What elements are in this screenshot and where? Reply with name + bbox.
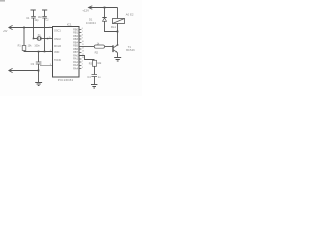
diode D1 cathode bar (102, 17, 106, 19)
wire junction down to R1 (23, 28, 25, 45)
capacitor C3 plates (36, 62, 42, 64)
svg-text:OSC2: OSC2 (54, 38, 61, 41)
wire diode to collector node (105, 21, 118, 31)
node C2 MCLR junction (44, 51, 46, 53)
scan smudge top-left corner (0, 0, 5, 2)
wire C1 vertical upper (33, 10, 35, 17)
svg-text:13: 13 (82, 51, 84, 53)
wire C4 to ground (94, 77, 96, 85)
svg-text:OSC1: OSC1 (54, 30, 61, 33)
right pin stubs (79, 30, 81, 69)
svg-text:RA4: RA4 (73, 67, 78, 70)
wire RB5 to base resistor (79, 46, 94, 48)
wire diode anode (104, 8, 106, 17)
svg-text:R3: R3 (89, 62, 93, 65)
capacitor C1 plates (31, 17, 36, 19)
node collector corner (117, 44, 119, 46)
crystal X1 body (38, 37, 40, 41)
wire C2 vertical upper (44, 10, 46, 17)
relay coil diagonal (113, 19, 125, 24)
wire RA0 branch down (79, 56, 95, 60)
resistor R1 body (22, 46, 26, 51)
transistor T1 collector (114, 45, 118, 48)
wire R2 to base (105, 46, 113, 48)
svg-text:X1: X1 (38, 34, 42, 37)
svg-text:2: 2 (82, 64, 83, 66)
node arrow junction (38, 70, 40, 72)
svg-text:12: 12 (82, 48, 84, 50)
svg-text:3: 3 (82, 67, 83, 69)
IC1 box PIC16F84 (53, 27, 80, 78)
node collector junction (117, 31, 119, 33)
node MCLR/C3 junction (38, 51, 40, 53)
emitter arrowhead (116, 51, 118, 53)
wire junction to ground (38, 71, 40, 83)
svg-text:C1: C1 (26, 16, 30, 20)
svg-text:VDD: VDD (54, 51, 59, 54)
wire relay to collector (117, 24, 119, 46)
ground bar above C1 (31, 9, 36, 11)
wire arrow to VDD pin (9, 27, 53, 29)
node R1 top junction (23, 27, 25, 29)
svg-text:+5V: +5V (3, 30, 8, 33)
svg-text:MCLR: MCLR (54, 45, 61, 48)
svg-text:+12V: +12V (82, 9, 89, 13)
svg-text:16: 16 (49, 27, 51, 29)
svg-text:11: 11 (82, 44, 84, 46)
ground bar above C2 (42, 9, 47, 11)
svg-text:PIC16F84: PIC16F84 (58, 78, 74, 82)
svg-text:10: 10 (82, 41, 84, 43)
svg-text:A0 E2: A0 E2 (126, 13, 134, 17)
svg-text:18: 18 (82, 57, 84, 59)
pin labels RB0-RB7 RA0-RA4 right column (73, 28, 78, 70)
svg-text:RL1: RL1 (111, 25, 116, 29)
pin numbers right (82, 28, 84, 69)
ground symbol emitter (114, 58, 121, 62)
wire +12V rail (89, 7, 118, 9)
wire C2 down to MCLR wire (44, 18, 46, 52)
svg-text:9: 9 (82, 38, 83, 40)
svg-text:R2: R2 (95, 51, 99, 55)
svg-text:10k: 10k (97, 62, 102, 65)
capacitor C2 plates (42, 17, 47, 19)
wire T0CKI pin (40, 65, 53, 67)
relay RL1 coil box (113, 19, 125, 24)
wire emitter to ground (117, 53, 119, 58)
node crystal right junction (47, 38, 49, 40)
off-page arrow connector upper left (9, 25, 13, 29)
node diode top junction (104, 7, 106, 9)
ground symbol under C4 (91, 85, 97, 89)
diode D1 triangle (103, 18, 107, 21)
wire R1 to MCLR pin (24, 51, 53, 52)
wire arrow to junction (9, 70, 39, 72)
wire C1 to crystal node (33, 18, 35, 39)
wire C3 bottom (38, 64, 40, 71)
svg-text:22p: 22p (35, 19, 40, 22)
power arrow +12V (89, 6, 93, 9)
wire R3 to C4 (94, 66, 96, 74)
wire crystal to OSC pin (41, 38, 53, 40)
ground symbol left (35, 83, 42, 86)
svg-text:IC1: IC1 (67, 22, 72, 26)
svg-text:6: 6 (82, 28, 83, 30)
svg-text:R1: R1 (18, 45, 22, 48)
wire C3 top (38, 52, 40, 62)
svg-text:100n: 100n (34, 44, 40, 47)
transistor T1 emitter (114, 50, 118, 53)
capacitor C4 plates (92, 75, 98, 77)
svg-text:10k: 10k (28, 44, 33, 47)
resistor R3 body (93, 60, 97, 66)
svg-text:C2: C2 (45, 18, 49, 21)
svg-text:1u: 1u (98, 76, 101, 79)
crystal X1 plates (37, 37, 41, 40)
svg-text:BC546: BC546 (126, 49, 135, 52)
svg-text:1: 1 (82, 61, 83, 63)
svg-text:15: 15 (49, 37, 51, 39)
svg-text:4: 4 (50, 50, 51, 52)
svg-text:D1: D1 (89, 17, 93, 21)
svg-text:C3: C3 (31, 62, 35, 66)
node C1 crystal junction (33, 38, 35, 40)
svg-text:7: 7 (82, 31, 83, 33)
svg-text:T0CKI: T0CKI (54, 59, 61, 62)
wire rail to relay coil (117, 8, 119, 19)
svg-text:1N4004: 1N4004 (86, 22, 96, 25)
svg-text:8: 8 (82, 35, 83, 37)
svg-text:3: 3 (50, 64, 51, 66)
resistor R2 body (94, 45, 104, 48)
transistor T1 base bar (112, 45, 114, 52)
svg-text:C4: C4 (87, 76, 91, 79)
off-page arrow connector (9, 68, 13, 72)
wire crystal left (34, 38, 38, 40)
